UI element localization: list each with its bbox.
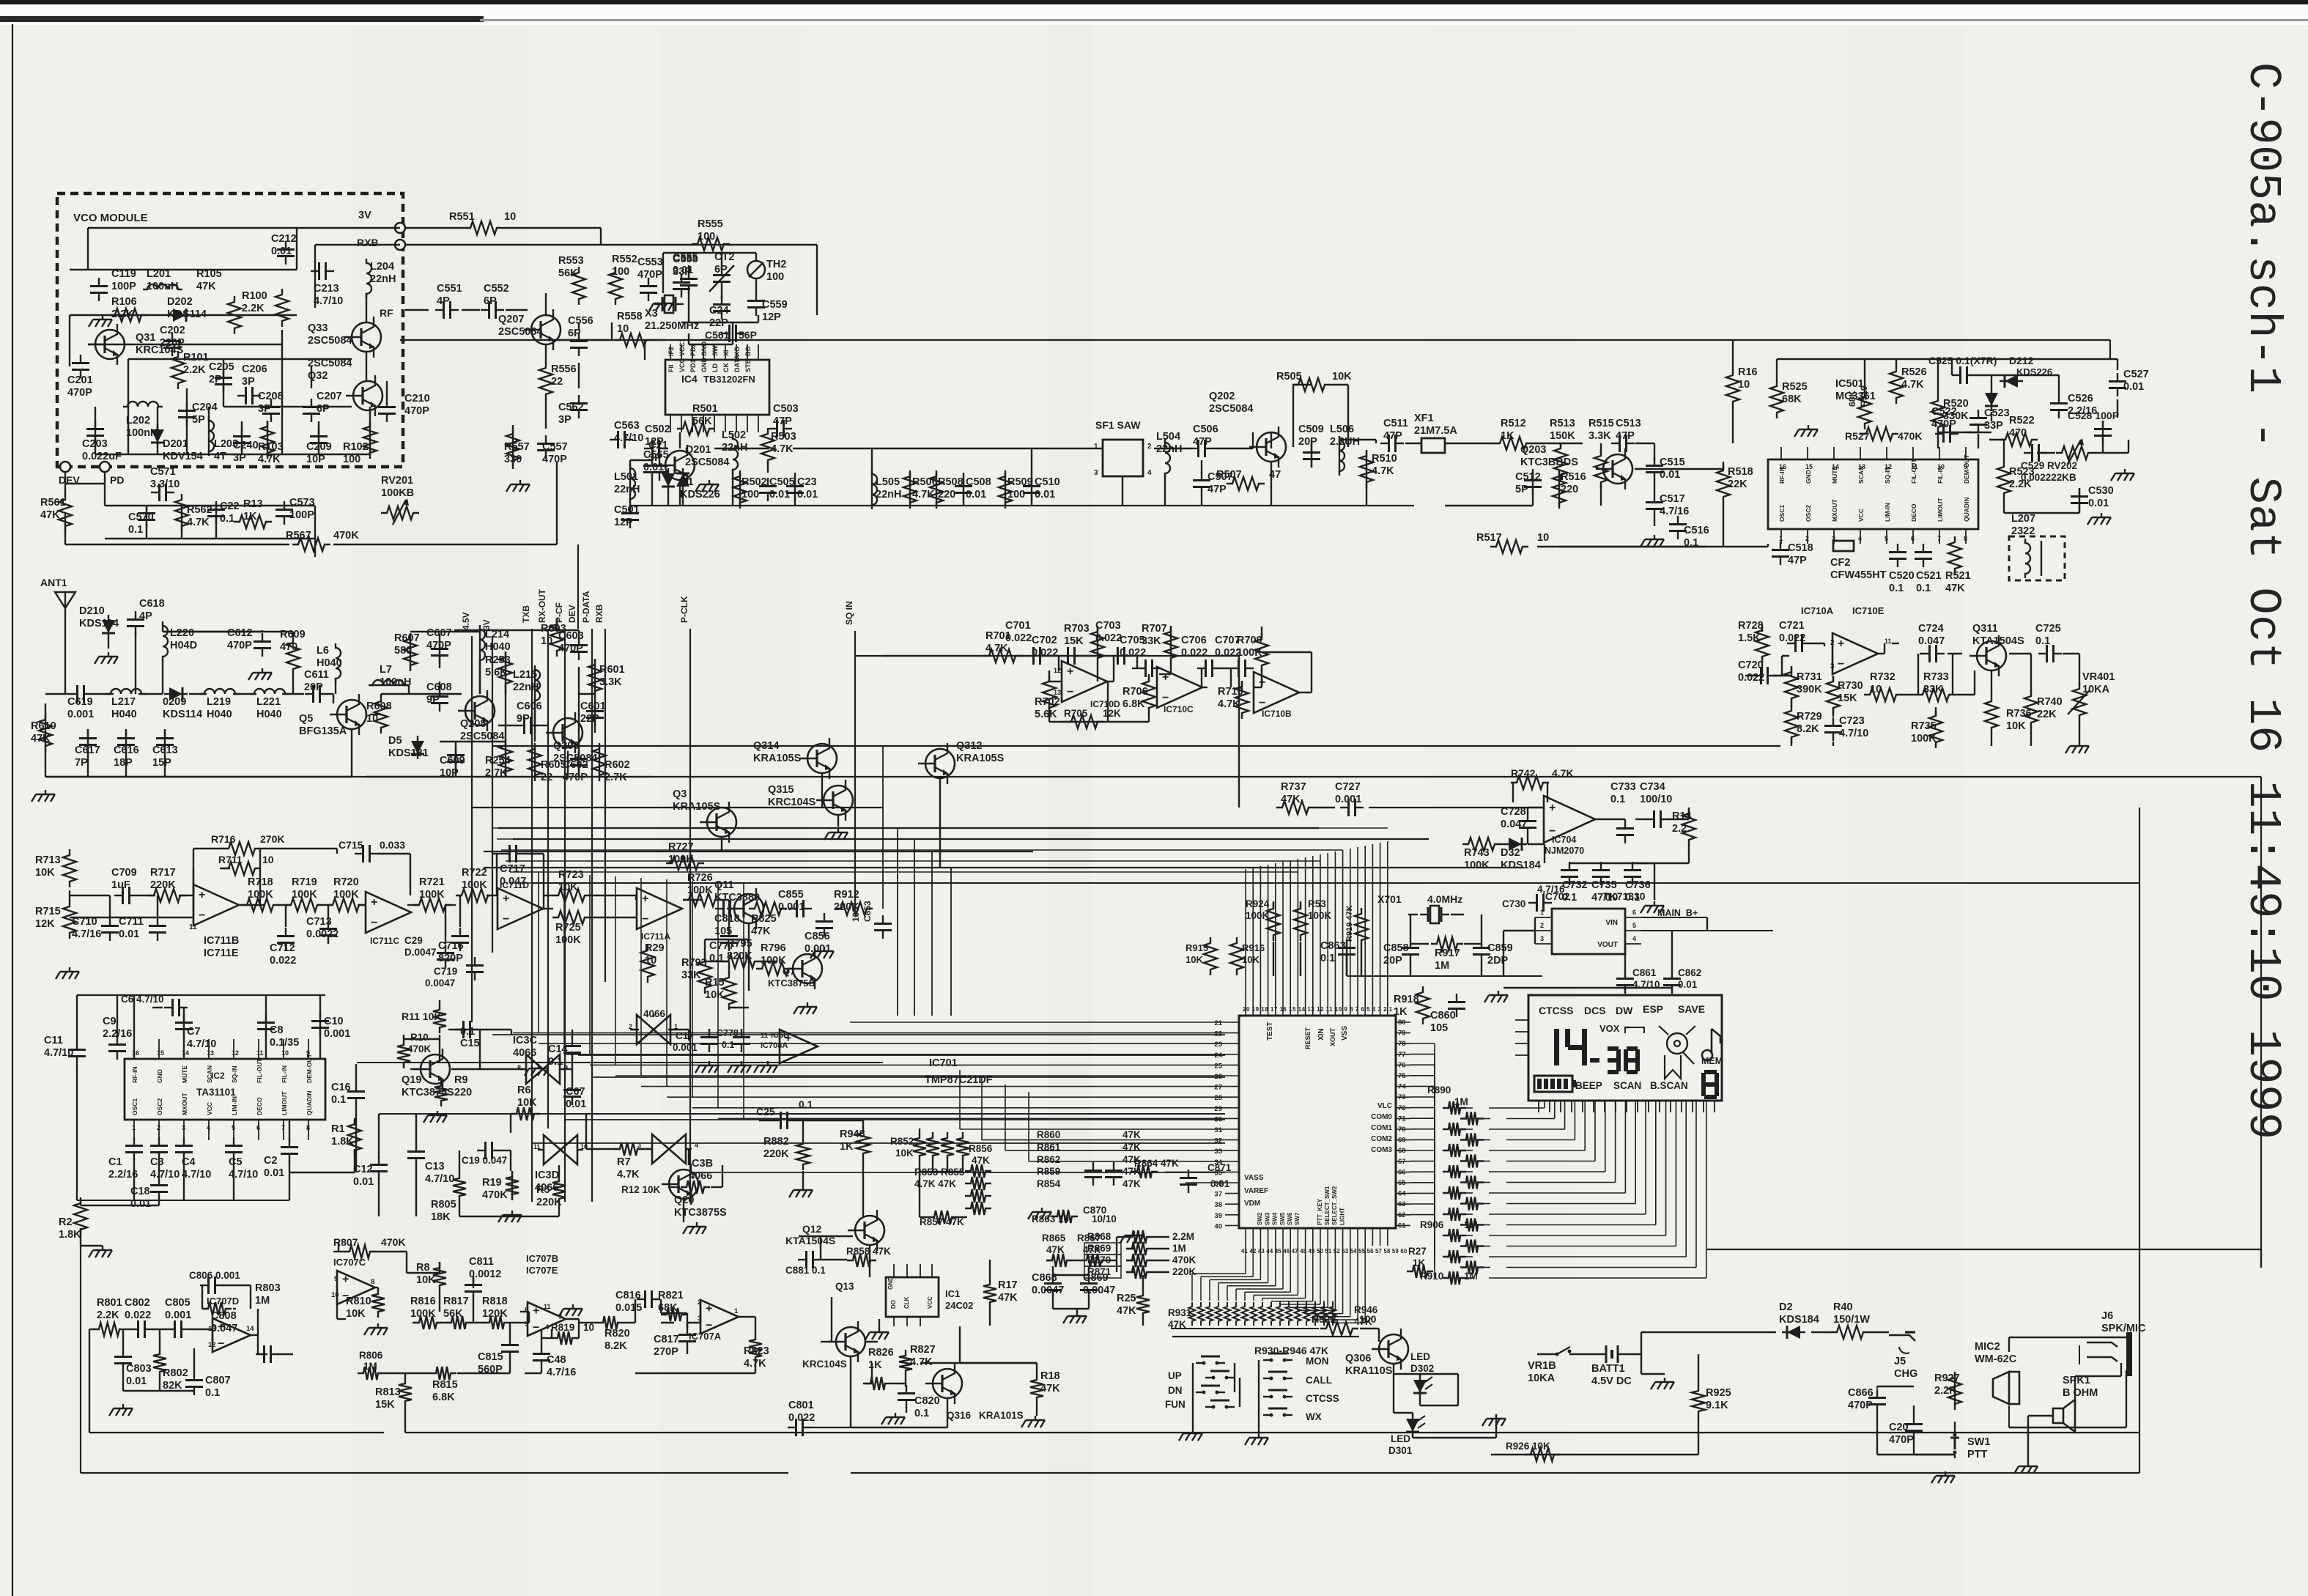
svg-text:C206: C206 bbox=[242, 363, 267, 375]
capacitor C717 bbox=[501, 853, 510, 854]
transistor Q314 bbox=[807, 744, 837, 773]
capacitor C527 bbox=[2117, 373, 2118, 382]
IC501 wires bbox=[1777, 358, 2117, 360]
capacitor C559 bbox=[755, 292, 757, 301]
resistor R7 bbox=[614, 1142, 643, 1156]
resistor R820 bbox=[597, 1316, 624, 1329]
svg-text:OSC2: OSC2 bbox=[1805, 505, 1812, 522]
inductor L215 bbox=[535, 665, 540, 705]
svg-text:Q208: Q208 bbox=[460, 718, 486, 730]
IC501 pin stubs bbox=[1780, 447, 1782, 459]
svg-text:47K: 47K bbox=[972, 1155, 990, 1166]
capacitor C23 bbox=[794, 478, 796, 487]
svg-text:R610: R610 bbox=[31, 720, 56, 732]
opamp IC707B bbox=[528, 1302, 566, 1336]
svg-text:R796: R796 bbox=[761, 942, 786, 954]
svg-text:COM3: COM3 bbox=[1371, 1146, 1392, 1154]
svg-text:L202: L202 bbox=[126, 415, 150, 426]
svg-text:COM0: COM0 bbox=[1371, 1113, 1392, 1121]
svg-text:J6: J6 bbox=[2101, 1310, 2113, 1322]
transistor Q312 bbox=[925, 749, 955, 778]
svg-text:0.01: 0.01 bbox=[769, 489, 790, 500]
resistor R101 bbox=[171, 351, 185, 389]
capacitor C20 bbox=[1913, 1416, 1915, 1425]
ground SPK bbox=[2027, 1462, 2029, 1466]
svg-text:DO: DO bbox=[890, 1300, 897, 1309]
svg-text:C820: C820 bbox=[914, 1395, 940, 1407]
IC710A wires bbox=[1761, 627, 1763, 632]
svg-text:LIGHT: LIGHT bbox=[1339, 1208, 1345, 1225]
svg-text:33: 33 bbox=[1214, 1148, 1222, 1156]
svg-text:R515: R515 bbox=[1588, 418, 1614, 429]
capacitor C858 bbox=[1410, 939, 1411, 948]
svg-text:2: 2 bbox=[1540, 922, 1544, 929]
svg-text:5P: 5P bbox=[1515, 484, 1528, 495]
svg-text:FUN: FUN bbox=[1165, 1399, 1186, 1410]
capacitor C561 bbox=[721, 333, 730, 334]
svg-text:0.0047: 0.0047 bbox=[1032, 1285, 1064, 1296]
svg-text:16: 16 bbox=[1779, 463, 1786, 470]
inductor L502 bbox=[733, 435, 738, 474]
VCO wire f bbox=[223, 406, 352, 407]
capacitor C207 bbox=[311, 399, 312, 407]
svg-text:0.022: 0.022 bbox=[1181, 647, 1207, 659]
svg-text:Q306: Q306 bbox=[1345, 1353, 1371, 1364]
resistor R555 bbox=[692, 237, 730, 251]
svg-text:R728: R728 bbox=[1738, 620, 1764, 632]
resistor R796 bbox=[756, 962, 794, 975]
svg-text:−: − bbox=[706, 1320, 712, 1332]
transistor Q311 bbox=[1977, 641, 2006, 670]
svg-text:R722: R722 bbox=[462, 867, 487, 879]
svg-text:73: 73 bbox=[1398, 1093, 1406, 1101]
resistor R857 bbox=[928, 1211, 958, 1224]
svg-text:16: 16 bbox=[132, 1049, 139, 1057]
opamp IC707D bbox=[212, 1318, 251, 1352]
resistor R917 bbox=[1431, 937, 1463, 950]
svg-text:TXB: TXB bbox=[521, 605, 531, 623]
svg-text:R906: R906 bbox=[1420, 1219, 1444, 1230]
left page border bbox=[12, 24, 13, 1596]
svg-text:R948: R948 bbox=[840, 1128, 865, 1140]
svg-text:1K: 1K bbox=[243, 511, 257, 522]
svg-text:C513: C513 bbox=[1616, 418, 1641, 429]
bus staircase bottom bbox=[1245, 1246, 1246, 1274]
IC2 wires bbox=[77, 994, 325, 996]
svg-text:R925: R925 bbox=[1706, 1387, 1731, 1399]
inductor L207 dashed box bbox=[2009, 536, 2065, 580]
svg-text:C701: C701 bbox=[1005, 620, 1031, 632]
svg-text:10KA: 10KA bbox=[1528, 1373, 1556, 1384]
svg-text:33K: 33K bbox=[1142, 635, 1161, 647]
svg-text:C609: C609 bbox=[440, 755, 465, 766]
svg-text:0.01: 0.01 bbox=[797, 489, 818, 500]
svg-text:47K: 47K bbox=[40, 509, 60, 521]
resistor R608 bbox=[374, 695, 388, 734]
svg-text:IF2: IF2 bbox=[667, 347, 675, 356]
opamp IC707A bbox=[700, 1300, 739, 1334]
R931 bank bbox=[1189, 1302, 1196, 1326]
svg-text:+: + bbox=[342, 1274, 349, 1286]
svg-text:C811: C811 bbox=[469, 1256, 494, 1268]
capacitor C806 bbox=[200, 1285, 209, 1286]
transistor Q208 bbox=[465, 696, 495, 725]
svg-text:QUADIN: QUADIN bbox=[306, 1090, 313, 1115]
resistor bank 853-856 bbox=[926, 1132, 939, 1161]
svg-text:SW7: SW7 bbox=[1294, 1212, 1301, 1225]
svg-text:25: 25 bbox=[1214, 1062, 1222, 1070]
svg-text:C859: C859 bbox=[1487, 942, 1513, 954]
opamp IC711B bbox=[193, 884, 239, 926]
svg-text:R711: R711 bbox=[218, 854, 243, 865]
capacitor C713 bbox=[328, 920, 329, 929]
svg-text:100nH: 100nH bbox=[380, 676, 412, 688]
inductor L6 bbox=[336, 643, 341, 683]
svg-text:4.7/16: 4.7/16 bbox=[1537, 884, 1565, 895]
resistor R912 bbox=[835, 902, 873, 915]
svg-text:C523: C523 bbox=[1984, 407, 2010, 419]
capacitor C565 bbox=[659, 457, 660, 466]
resistor R922 bbox=[1320, 1322, 1358, 1335]
svg-text:R918: R918 bbox=[1394, 994, 1419, 1005]
svg-text:C48: C48 bbox=[547, 1354, 566, 1366]
svg-text:C205: C205 bbox=[209, 361, 234, 373]
resistor R826 bbox=[865, 1377, 891, 1390]
ground IC2 bbox=[102, 1246, 103, 1250]
svg-text:0.1: 0.1 bbox=[1889, 583, 1904, 594]
capacitor C816 bbox=[637, 1298, 646, 1300]
svg-text:220K: 220K bbox=[763, 1148, 789, 1160]
svg-text:RV201: RV201 bbox=[381, 475, 413, 487]
svg-text:VCC: VCC bbox=[927, 1296, 933, 1309]
bus audio1520 bbox=[379, 1113, 1225, 1115]
svg-text:LED: LED bbox=[1391, 1433, 1410, 1444]
svg-text:0.01: 0.01 bbox=[2088, 498, 2109, 509]
svg-text:C806 0.001: C806 0.001 bbox=[189, 1270, 240, 1281]
svg-text:4066: 4066 bbox=[513, 1047, 536, 1059]
inductor L504 bbox=[1165, 438, 1170, 478]
svg-text:KRA105S: KRA105S bbox=[753, 753, 802, 764]
svg-text:L221: L221 bbox=[256, 696, 281, 708]
svg-text:0.01: 0.01 bbox=[1035, 489, 1055, 500]
svg-text:COM1: COM1 bbox=[1371, 1124, 1392, 1132]
svg-text:4P: 4P bbox=[139, 610, 152, 622]
svg-text:SW3: SW3 bbox=[1264, 1212, 1270, 1225]
svg-text:R5: R5 bbox=[536, 1184, 550, 1196]
svg-text:C517: C517 bbox=[1660, 493, 1685, 505]
svg-text:PD: PD bbox=[110, 474, 124, 486]
resistor R16 bbox=[1726, 369, 1739, 407]
svg-text:0.047: 0.047 bbox=[1918, 635, 1945, 647]
svg-text:C240: C240 bbox=[233, 440, 259, 451]
ground IC707B bbox=[572, 1304, 574, 1309]
svg-text:IC3D: IC3D bbox=[535, 1170, 559, 1181]
svg-text:R726: R726 bbox=[687, 872, 713, 884]
svg-text:0.001: 0.001 bbox=[324, 1028, 350, 1040]
diode D32 bbox=[1503, 843, 1527, 845]
svg-text:2SC5084: 2SC5084 bbox=[460, 731, 504, 742]
inductor L219 bbox=[200, 689, 240, 694]
crystal X3 bbox=[654, 303, 662, 305]
svg-text:C551: C551 bbox=[437, 283, 462, 295]
svg-text:C563: C563 bbox=[614, 420, 640, 432]
IC710 wires bbox=[982, 655, 985, 657]
svg-text:4.7/10: 4.7/10 bbox=[182, 1169, 211, 1181]
svg-text:10: 10 bbox=[617, 323, 629, 335]
svg-text:VCC1: VCC1 bbox=[678, 339, 686, 356]
svg-text:LIMOUT: LIMOUT bbox=[1937, 498, 1944, 522]
svg-text:47K: 47K bbox=[751, 926, 771, 937]
svg-text:H040: H040 bbox=[111, 709, 137, 720]
IC2 box bbox=[125, 1059, 325, 1120]
svg-text:0.1: 0.1 bbox=[331, 1094, 346, 1106]
svg-text:0209: 0209 bbox=[163, 696, 186, 708]
resistor R6 bbox=[511, 1107, 540, 1120]
svg-text:1.8K: 1.8K bbox=[59, 1229, 81, 1241]
resistor R818 bbox=[484, 1316, 510, 1329]
svg-text:100K: 100K bbox=[761, 955, 786, 967]
capacitor C703 bbox=[1109, 655, 1118, 657]
svg-text:D.0047: D.0047 bbox=[404, 947, 437, 958]
svg-text:R869: R869 bbox=[1087, 1243, 1111, 1254]
svg-text:RX-OUT: RX-OUT bbox=[537, 588, 547, 623]
svg-text:0.01: 0.01 bbox=[264, 1167, 284, 1179]
svg-text:65: 65 bbox=[1398, 1179, 1406, 1187]
svg-text:100K: 100K bbox=[1308, 910, 1332, 921]
svg-text:R721: R721 bbox=[419, 876, 445, 888]
capacitor C551 bbox=[435, 309, 444, 311]
svg-text:12P: 12P bbox=[614, 517, 633, 528]
svg-text:22: 22 bbox=[551, 376, 563, 388]
resistor R926 bbox=[1525, 1448, 1560, 1461]
svg-text:47K: 47K bbox=[998, 1292, 1018, 1304]
svg-text:R510: R510 bbox=[1372, 453, 1397, 465]
svg-text:47P: 47P bbox=[1383, 430, 1402, 442]
opamp IC708A bbox=[780, 1030, 818, 1063]
svg-text:−: − bbox=[371, 917, 377, 929]
bus to IC710 bbox=[883, 655, 982, 657]
svg-text:RF-IN: RF-IN bbox=[131, 1066, 138, 1083]
svg-text:C530: C530 bbox=[2088, 485, 2114, 497]
capacitor C802 bbox=[130, 1329, 138, 1330]
svg-text:0.0022: 0.0022 bbox=[306, 928, 339, 940]
resistor R503 bbox=[761, 428, 774, 466]
svg-text:18K: 18K bbox=[431, 1211, 451, 1223]
resistor R506 bbox=[903, 470, 917, 509]
svg-text:9: 9 bbox=[1964, 463, 1967, 470]
IC501 box bbox=[1768, 459, 1978, 529]
svg-text:L502: L502 bbox=[722, 429, 746, 441]
resistor R801 bbox=[93, 1323, 125, 1336]
svg-text:0.1: 0.1 bbox=[709, 953, 724, 964]
capacitor C503 bbox=[769, 428, 777, 429]
svg-text:C13: C13 bbox=[425, 1161, 445, 1172]
net P-CLK bbox=[689, 629, 691, 1202]
svg-text:LIM-IN: LIM-IN bbox=[1884, 503, 1891, 522]
svg-text:COM2: COM2 bbox=[1371, 1135, 1392, 1143]
resistor R729 bbox=[1785, 705, 1798, 743]
svg-text:2: 2 bbox=[1147, 443, 1152, 451]
svg-text:47P: 47P bbox=[773, 415, 792, 427]
resistor R819 bbox=[552, 1331, 578, 1345]
svg-text:1M: 1M bbox=[1464, 1271, 1478, 1282]
svg-text:100K: 100K bbox=[555, 934, 581, 946]
svg-text:R7: R7 bbox=[617, 1156, 631, 1168]
svg-text:C715: C715 bbox=[339, 839, 363, 851]
svg-text:MAIN_B+: MAIN_B+ bbox=[1657, 908, 1698, 918]
capacitor C606 bbox=[516, 725, 525, 726]
ground IC4 bbox=[519, 480, 521, 484]
svg-text:470: 470 bbox=[280, 641, 297, 653]
capacitor C526 bbox=[2058, 395, 2060, 404]
svg-text:R868: R868 bbox=[1087, 1231, 1112, 1242]
svg-text:R702: R702 bbox=[1035, 696, 1060, 708]
svg-text:22nH: 22nH bbox=[876, 489, 901, 500]
svg-text:10K: 10K bbox=[705, 989, 725, 1001]
svg-text:0.022: 0.022 bbox=[125, 1309, 151, 1321]
capacitor C10 bbox=[319, 1013, 321, 1021]
svg-text:L506: L506 bbox=[1330, 424, 1354, 435]
svg-text:C807: C807 bbox=[205, 1375, 231, 1386]
resistor R731 bbox=[1785, 666, 1798, 704]
svg-text:R505: R505 bbox=[1276, 371, 1302, 383]
transistor Q3 bbox=[707, 808, 736, 837]
ground VCO bbox=[102, 315, 103, 319]
svg-text:C869: C869 bbox=[1083, 1272, 1109, 1284]
capacitor C512 bbox=[1532, 472, 1534, 481]
svg-text:3.3/10: 3.3/10 bbox=[150, 479, 180, 490]
R868 block bbox=[1126, 1230, 1153, 1244]
IC701 top bus fan bbox=[1245, 869, 1246, 994]
resistor R27 bbox=[1407, 1265, 1433, 1278]
svg-text:L505: L505 bbox=[876, 476, 900, 488]
svg-text:29: 29 bbox=[1214, 1105, 1222, 1113]
mixer row wire3 bbox=[679, 432, 681, 448]
svg-text:100P: 100P bbox=[111, 281, 136, 292]
capacitor C202 bbox=[171, 333, 173, 341]
svg-text:R810: R810 bbox=[346, 1296, 371, 1307]
svg-text:R826: R826 bbox=[868, 1347, 894, 1359]
ground Q13 bbox=[879, 1328, 880, 1332]
4066 wires bbox=[439, 1000, 440, 1004]
resistor R918 bbox=[1416, 986, 1429, 1024]
svg-text:C618: C618 bbox=[139, 598, 165, 610]
svg-text:C724: C724 bbox=[1918, 623, 1944, 635]
svg-text:C16: C16 bbox=[331, 1082, 351, 1093]
svg-text:H040: H040 bbox=[485, 641, 511, 653]
capacitor C719 bbox=[474, 957, 476, 966]
LCD connection staircase bbox=[1489, 1107, 1545, 1109]
svg-text:10: 10 bbox=[1537, 532, 1549, 544]
svg-text:8.2K: 8.2K bbox=[604, 1340, 627, 1352]
ground Q315 bbox=[837, 828, 839, 832]
capacitor C4 bbox=[183, 1137, 185, 1146]
svg-text:2SC5084: 2SC5084 bbox=[498, 326, 542, 338]
svg-text:R106: R106 bbox=[111, 296, 137, 308]
resistor R805 bbox=[453, 1172, 466, 1202]
svg-text:470P: 470P bbox=[227, 640, 252, 651]
resistor R520 bbox=[1931, 395, 1945, 433]
svg-text:R729: R729 bbox=[1797, 711, 1822, 723]
IC4 top pins bbox=[670, 344, 671, 360]
svg-text:−: − bbox=[199, 909, 205, 922]
svg-text:IC707C: IC707C bbox=[333, 1257, 366, 1268]
svg-text:L201: L201 bbox=[147, 268, 171, 280]
X701 wires bbox=[1408, 914, 1418, 915]
svg-text:R733: R733 bbox=[1923, 671, 1949, 683]
svg-text:H04D: H04D bbox=[170, 640, 197, 651]
inductor L501 bbox=[630, 464, 635, 503]
svg-text:−: − bbox=[1162, 692, 1169, 704]
svg-text:R821: R821 bbox=[658, 1290, 684, 1301]
capacitor C3 bbox=[158, 1137, 160, 1146]
svg-text:FIL-OUT: FIL-OUT bbox=[1910, 459, 1917, 484]
svg-text:D202: D202 bbox=[167, 296, 193, 308]
capacitor C710 bbox=[109, 917, 111, 926]
svg-text:9.1K: 9.1K bbox=[1706, 1400, 1728, 1411]
resistor R567 bbox=[292, 538, 330, 551]
svg-text:47K: 47K bbox=[1945, 583, 1965, 594]
svg-text:L215: L215 bbox=[513, 669, 537, 681]
svg-text:40: 40 bbox=[1214, 1222, 1222, 1230]
capacitor C701 bbox=[1025, 655, 1034, 657]
svg-text:RXB: RXB bbox=[594, 604, 604, 623]
bowtie IC3B bbox=[652, 1134, 686, 1164]
capacitor C15 bbox=[455, 1029, 464, 1030]
svg-text:VOUT: VOUT bbox=[1597, 941, 1618, 949]
svg-text:10K: 10K bbox=[1186, 954, 1203, 965]
capacitor C612 bbox=[262, 633, 263, 642]
svg-text:R558: R558 bbox=[617, 311, 643, 322]
svg-text:0.001: 0.001 bbox=[165, 1309, 191, 1321]
resistor R716 bbox=[223, 842, 261, 855]
capacitor C856 bbox=[824, 913, 825, 922]
svg-text:100K: 100K bbox=[333, 889, 359, 901]
transistor Q5 bbox=[337, 700, 366, 729]
capacitor C735 bbox=[1600, 862, 1602, 871]
svg-text:4.7/10: 4.7/10 bbox=[614, 432, 643, 444]
svg-text:4.7K: 4.7K bbox=[187, 517, 210, 528]
opamp IC710D bbox=[1062, 661, 1107, 702]
SAW filter SF1 bbox=[1103, 440, 1143, 476]
capacitor C881 bbox=[798, 1259, 807, 1260]
resistor R508 bbox=[930, 470, 943, 509]
svg-text:C817: C817 bbox=[654, 1334, 679, 1345]
svg-text:1: 1 bbox=[734, 1307, 739, 1315]
svg-text:R715: R715 bbox=[35, 906, 61, 917]
bus mid4 bbox=[498, 827, 1319, 829]
diode D201 bbox=[157, 424, 158, 448]
resistor R523 bbox=[1997, 461, 2011, 499]
svg-text:70: 70 bbox=[1398, 1126, 1406, 1134]
svg-text:Q207: Q207 bbox=[498, 314, 524, 325]
svg-text:0.033: 0.033 bbox=[380, 839, 405, 851]
svg-text:R553: R553 bbox=[558, 255, 584, 267]
node DEV ring bbox=[60, 462, 70, 472]
inductor L506 bbox=[1339, 436, 1345, 476]
resistor R810 bbox=[371, 1288, 385, 1318]
svg-text:LD: LD bbox=[711, 363, 719, 372]
svg-text:PTT: PTT bbox=[1967, 1449, 1988, 1460]
svg-text:0.1: 0.1 bbox=[722, 1040, 734, 1050]
svg-text:DECO: DECO bbox=[1910, 503, 1917, 522]
svg-text:R740: R740 bbox=[2037, 696, 2063, 708]
net RXB bbox=[604, 629, 606, 982]
svg-text:8: 8 bbox=[371, 1278, 374, 1286]
svg-text:3V: 3V bbox=[358, 210, 371, 221]
svg-text:10: 10 bbox=[583, 1322, 594, 1333]
svg-text:D301: D301 bbox=[1388, 1445, 1413, 1456]
